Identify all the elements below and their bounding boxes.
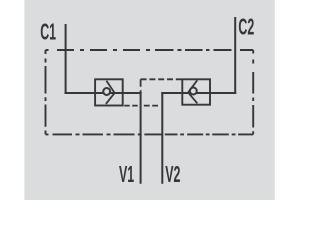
check valve CV2 ball [190,88,197,95]
valve body envelope, chain-line left edge [45,50,47,134]
wire C2 vertical [234,17,236,94]
svg-text:C2: C2 [238,13,254,39]
wire through CV2 [182,92,210,94]
wire CV2 to node V2 [161,92,182,94]
svg-text:V1: V1 [119,161,134,187]
wire C2 to check valve CV2 [210,92,237,94]
svg-text:C1: C1 [40,18,56,44]
pilot line (dashed) from node V1 to CV2, vertical run [140,79,142,93]
wire V1 vertical [140,92,142,184]
check valve CV1 body [95,79,123,105]
wire C1 to check valve CV1 [65,92,96,94]
wire C1 vertical [65,24,67,94]
wire V2 vertical [161,92,163,184]
wire CV1 to node V1 [122,92,141,94]
check valve CV2 body [182,79,210,104]
svg-text:V2: V2 [165,161,180,187]
check valve CV1 seat [106,81,115,104]
pilot line (dashed) from node V2 to CV1 [124,105,162,107]
wire through CV1 [95,92,123,94]
white page background [0,0,300,200]
valve body envelope, chain-line right edge [252,50,254,134]
pilot line (dashed) from node V1 to CV2, horizontal run [141,78,183,80]
valve body envelope, chain-line top edge [46,49,254,51]
check valve CV1 ball [103,88,110,95]
check valve CV2 seat [188,80,197,103]
gray schematic panel [24,0,274,200]
valve body envelope, chain-line bottom edge [46,133,254,135]
